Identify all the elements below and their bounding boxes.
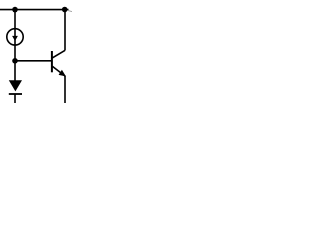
wire top rail faint continuation (68, 11, 72, 12)
wire collector vertical (64, 10, 66, 51)
wire left vertical (top rail to current source) (14, 10, 16, 29)
wire top rail (0, 9, 69, 11)
node A (top rail / current source junction) (12, 7, 18, 13)
transistor Q1 (NPN) (52, 50, 66, 76)
wire left vertical (current source to diode) (14, 45, 16, 81)
wire diode cathode to bottom edge (14, 94, 16, 103)
current source I1 (7, 29, 23, 45)
wire base connection (15, 60, 51, 62)
node C (base junction) (12, 58, 18, 64)
node B (top rail / collector junction) (62, 7, 68, 13)
diode D1 (9, 80, 22, 94)
wire emitter vertical (64, 76, 66, 103)
